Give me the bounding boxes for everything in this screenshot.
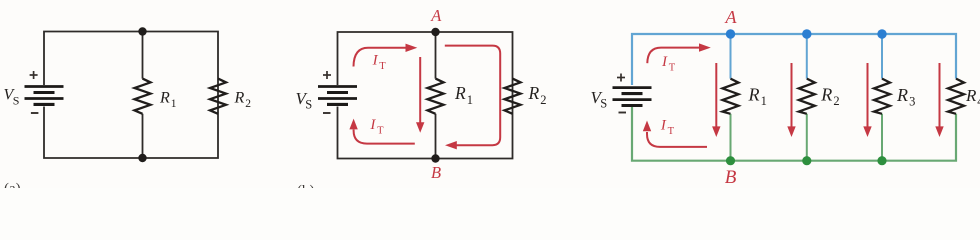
svg-text:1: 1 <box>467 93 473 107</box>
svg-text:R: R <box>820 85 832 105</box>
svg-text:R: R <box>965 86 977 105</box>
svg-text:I: I <box>369 117 376 133</box>
node: blue junction dot above R1 (node A) <box>726 29 735 38</box>
svg-text:2: 2 <box>540 93 546 107</box>
arrow: IT hook bottom-left (b) <box>354 130 415 144</box>
wire: circuit (b) outer loop <box>338 32 513 159</box>
arrow: total current down middle (b) <box>419 57 421 124</box>
svg-text:B: B <box>431 163 441 182</box>
wire: R1 (c) top lead (blue) <box>730 34 732 79</box>
battery VS (c): plates <box>613 88 652 106</box>
battery VS (a): plates <box>25 87 64 105</box>
resistor R1 (c): zigzag <box>723 79 739 114</box>
arrow: branch current down through R2 (c) <box>791 63 793 128</box>
svg-text:I: I <box>660 117 667 133</box>
resistor R3 (c): zigzag <box>874 79 890 114</box>
wire: R3 (c) top lead (blue) <box>881 34 883 79</box>
node A (b): junction dot <box>431 28 439 36</box>
svg-text:R: R <box>159 89 170 106</box>
wire: R2 (c) top lead (blue) <box>806 34 808 79</box>
svg-text:S: S <box>305 98 312 112</box>
wire: circuit (b) R1 branch vertical <box>435 32 437 159</box>
svg-text:R: R <box>748 84 760 104</box>
wire: circuit (a) R1 branch vertical <box>142 32 144 159</box>
arrow: branch current down through R3 (c) <box>867 63 869 128</box>
label: battery (a) plus sign <box>30 71 38 79</box>
node: green junction dot below R2 <box>802 156 811 165</box>
arrow: IT hook bottom-left (c) <box>647 132 707 147</box>
node: circuit (a) top junction dot <box>138 27 146 35</box>
arrow: IT hook top-left (b) <box>354 48 407 67</box>
wire: circuit (a) outer loop (top, left, bottom, right) <box>44 32 218 159</box>
svg-text:A: A <box>725 7 738 27</box>
svg-text:B: B <box>725 167 737 188</box>
node B (b): junction dot <box>431 154 439 162</box>
svg-text:A: A <box>430 6 442 25</box>
svg-text:S: S <box>600 96 607 110</box>
node: green junction dot below R3 <box>877 156 886 165</box>
svg-text:2: 2 <box>245 98 251 110</box>
svg-text:3: 3 <box>909 94 915 108</box>
wire: R3 (c) bottom lead (green) <box>881 114 883 161</box>
resistor R4 (c): zigzag <box>948 79 964 114</box>
label: battery (c) minus sign <box>619 112 627 114</box>
svg-text:R: R <box>234 89 245 106</box>
battery VS (b): plates <box>318 87 357 105</box>
node: circuit (a) bottom junction dot <box>138 154 146 162</box>
arrow: IT hook top-left (c) <box>647 48 699 64</box>
arrow: branch current down through R1 (c) <box>715 63 717 128</box>
resistor R1 (b): zigzag <box>428 79 444 114</box>
svg-text:I: I <box>372 52 379 68</box>
svg-text:2: 2 <box>833 94 839 108</box>
label: battery (b) minus sign <box>323 112 331 114</box>
node: blue junction dot above R2 <box>802 29 811 38</box>
resistor R2 (b): zigzag <box>505 79 521 114</box>
svg-text:R: R <box>528 83 540 103</box>
arrow: current loop right side (b), ends pointing at node B <box>445 46 500 146</box>
svg-text:(a): (a) <box>4 181 21 188</box>
svg-text:R: R <box>896 85 908 105</box>
resistor R1 (a): zigzag <box>135 79 151 114</box>
svg-text:S: S <box>13 94 20 108</box>
svg-text:1: 1 <box>761 94 767 108</box>
resistor R2 (c): zigzag <box>799 79 815 114</box>
label: battery (c) plus sign <box>617 74 625 82</box>
svg-text:I: I <box>661 54 668 70</box>
svg-text:1: 1 <box>171 98 177 110</box>
svg-text:T: T <box>669 63 676 74</box>
svg-text:R: R <box>454 83 466 103</box>
svg-text:T: T <box>379 61 386 72</box>
wire: R1 (c) bottom lead (green) <box>730 114 732 161</box>
arrow: branch current down through R4 (c) <box>939 63 941 128</box>
resistor R2 (a): zigzag <box>210 79 226 114</box>
node: green junction dot below R1 (node B) <box>726 156 735 165</box>
wire: R2 (c) bottom lead (green) <box>806 114 808 161</box>
node: blue junction dot above R3 <box>877 29 886 38</box>
label: battery (b) plus sign <box>323 71 331 79</box>
svg-text:(b): (b) <box>297 183 315 188</box>
svg-text:T: T <box>377 126 384 137</box>
wire: top bus (blue) node A rail <box>632 34 956 85</box>
wire: bottom bus (green) node B rail <box>632 107 956 161</box>
label: battery (a) minus sign <box>31 112 39 114</box>
svg-text:T: T <box>668 126 675 137</box>
